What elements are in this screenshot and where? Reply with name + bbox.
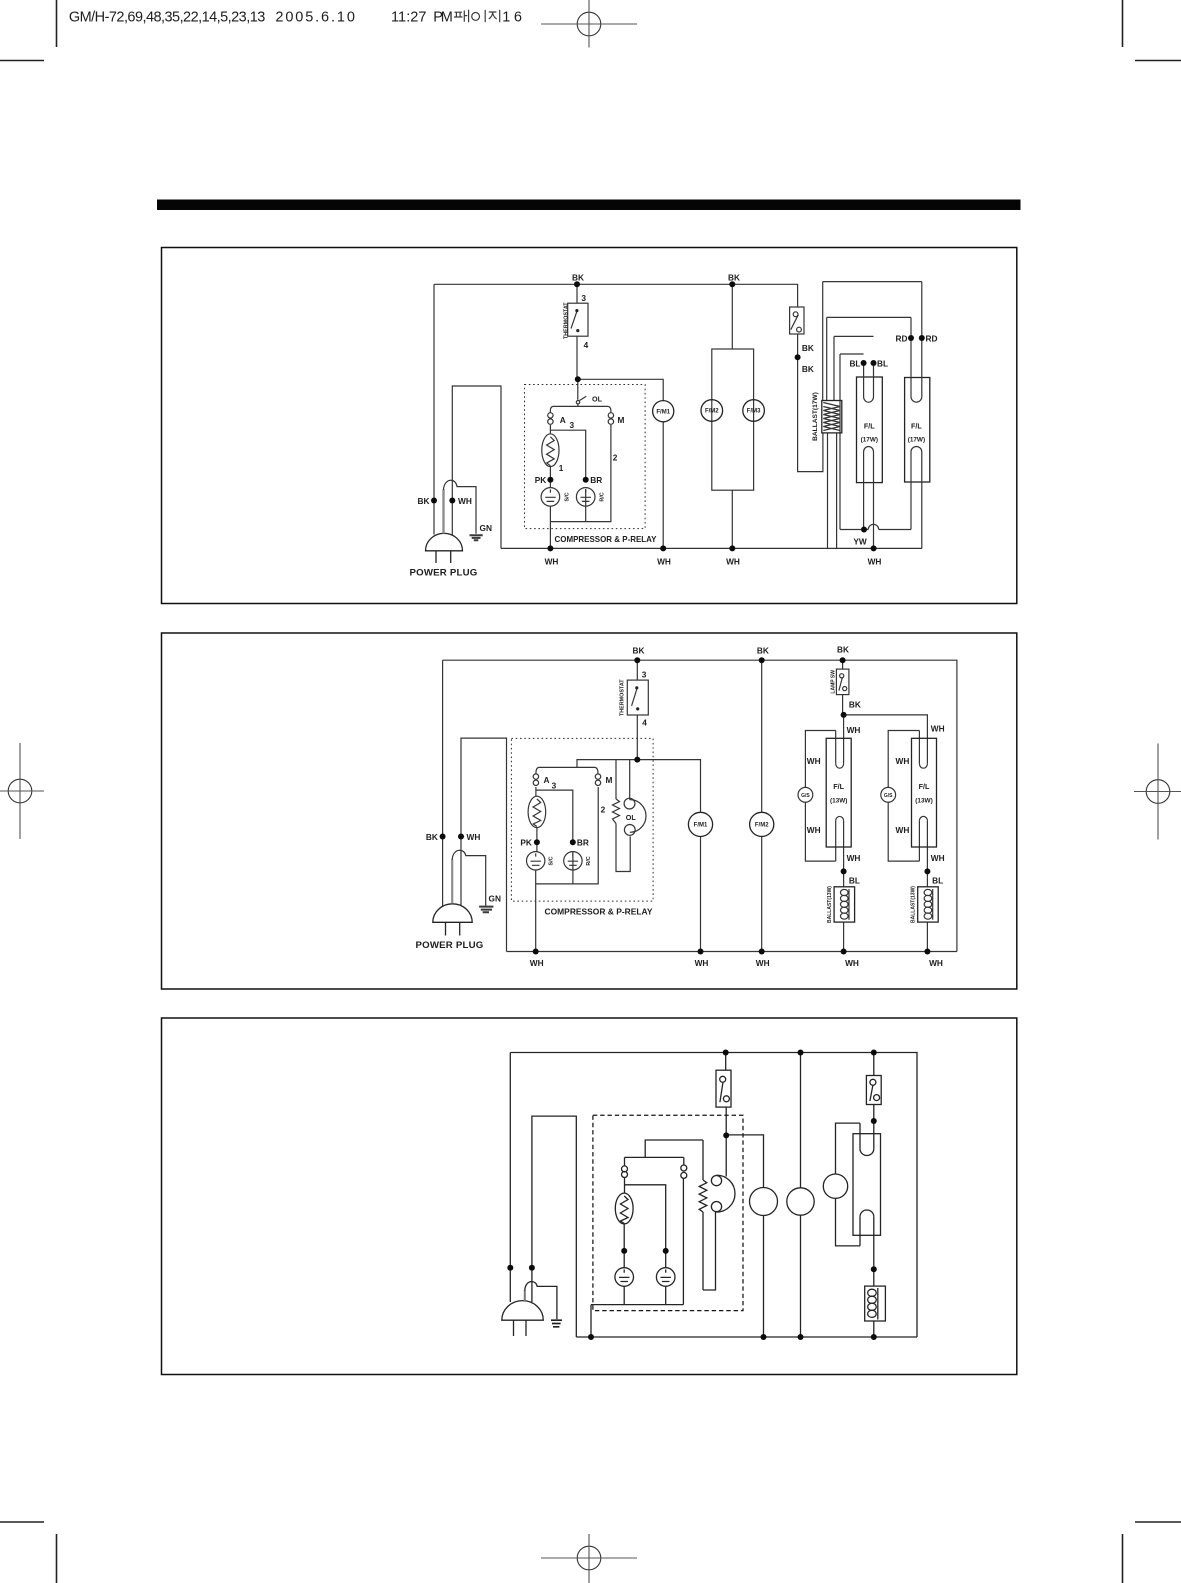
svg-text:F/M1: F/M1 — [694, 823, 708, 829]
svg-text:BK: BK — [837, 645, 849, 655]
svg-text:3: 3 — [581, 293, 586, 303]
svg-text:OL: OL — [626, 813, 637, 822]
svg-text:BL: BL — [877, 359, 888, 369]
svg-text:3: 3 — [552, 781, 557, 791]
svg-text:BL: BL — [849, 359, 860, 369]
svg-text:BK: BK — [728, 273, 740, 283]
svg-text:(17W): (17W) — [908, 437, 925, 444]
svg-text:2005.6.10: 2005.6.10 — [275, 9, 355, 25]
svg-text:A: A — [560, 415, 566, 425]
svg-text:M: M — [618, 415, 625, 425]
svg-text:BL: BL — [849, 876, 860, 886]
svg-text:BK: BK — [757, 646, 769, 656]
svg-text:PK: PK — [520, 837, 532, 847]
svg-text:BALLAST(13W): BALLAST(13W) — [911, 886, 917, 923]
svg-text:R/C: R/C — [586, 856, 592, 865]
svg-text:RD: RD — [926, 334, 938, 344]
svg-text:F/L: F/L — [864, 422, 875, 431]
svg-text:WH: WH — [929, 958, 943, 968]
svg-text:WH: WH — [845, 958, 859, 968]
svg-text:WH: WH — [458, 496, 472, 506]
svg-text:WH: WH — [807, 756, 821, 766]
svg-text:WH: WH — [545, 557, 559, 567]
svg-text:WH: WH — [756, 958, 770, 968]
svg-text:2: 2 — [613, 453, 618, 463]
svg-text:BR: BR — [590, 475, 602, 485]
svg-text:WH: WH — [657, 557, 671, 567]
svg-text:GM/H-72,69,48,35,22,14,5,23,13: GM/H-72,69,48,35,22,14,5,23,13 — [69, 9, 265, 25]
svg-text:COMPRESSOR & P-RELAY: COMPRESSOR & P-RELAY — [555, 534, 657, 544]
svg-text:COMPRESSOR & P-RELAY: COMPRESSOR & P-RELAY — [545, 907, 653, 917]
svg-text:BK: BK — [426, 832, 438, 842]
svg-text:BALLAST(13W): BALLAST(13W) — [827, 886, 833, 923]
svg-text:YW: YW — [853, 537, 867, 547]
svg-text:BK: BK — [802, 364, 814, 374]
svg-text:WH: WH — [931, 853, 945, 863]
svg-text:F/M1: F/M1 — [656, 409, 670, 415]
svg-text:BK: BK — [802, 343, 814, 353]
svg-text:3: 3 — [569, 420, 574, 430]
svg-text:POWER PLUG: POWER PLUG — [410, 567, 478, 578]
svg-text:2: 2 — [601, 805, 606, 815]
svg-text:RD: RD — [896, 334, 908, 344]
svg-text:THERMOSTAT: THERMOSTAT — [564, 302, 570, 339]
svg-text:G/S: G/S — [801, 793, 810, 799]
svg-text:WH: WH — [695, 958, 709, 968]
svg-text:PM: PM — [433, 9, 453, 25]
svg-text:F/M2: F/M2 — [755, 823, 769, 829]
svg-text:WH: WH — [530, 958, 544, 968]
svg-text:BK: BK — [572, 273, 584, 283]
svg-text:POWER PLUG: POWER PLUG — [416, 939, 484, 950]
svg-text:F/M2: F/M2 — [705, 409, 719, 415]
svg-text:WH: WH — [467, 832, 481, 842]
svg-text:A: A — [544, 775, 550, 785]
svg-text:F/L: F/L — [919, 782, 930, 791]
svg-text:BR: BR — [577, 837, 589, 847]
svg-text:4: 4 — [642, 718, 647, 728]
svg-text:GN: GN — [480, 523, 492, 533]
svg-text:F/L: F/L — [833, 782, 844, 791]
svg-text:WH: WH — [896, 825, 910, 835]
svg-text:(13W): (13W) — [830, 798, 847, 805]
svg-text:S/C: S/C — [564, 492, 570, 501]
svg-text:WH: WH — [896, 756, 910, 766]
svg-text:1: 1 — [559, 463, 564, 473]
svg-text:R/C: R/C — [600, 492, 606, 501]
svg-text:BL: BL — [932, 876, 943, 886]
svg-text:WH: WH — [726, 557, 740, 567]
svg-text:BK: BK — [418, 496, 430, 506]
svg-text:OL: OL — [592, 395, 603, 404]
svg-text:F/L: F/L — [911, 422, 922, 431]
svg-text:GN: GN — [489, 894, 501, 904]
svg-text:BK: BK — [633, 646, 645, 656]
svg-text:11:27: 11:27 — [391, 9, 427, 25]
svg-text:(17W): (17W) — [861, 437, 878, 444]
svg-text:G/S: G/S — [884, 793, 893, 799]
svg-text:WH: WH — [847, 853, 861, 863]
svg-text:THERMOSTAT: THERMOSTAT — [619, 679, 625, 716]
svg-text:(13W): (13W) — [915, 798, 932, 805]
svg-text:WH: WH — [868, 557, 882, 567]
svg-text:BK: BK — [849, 700, 861, 710]
svg-text:16: 16 — [502, 9, 522, 25]
svg-text:3: 3 — [642, 670, 647, 680]
svg-text:F/M3: F/M3 — [747, 409, 761, 415]
svg-text:WH: WH — [807, 825, 821, 835]
svg-text:WH: WH — [931, 724, 945, 734]
svg-text:PK: PK — [535, 475, 547, 485]
svg-text:4: 4 — [584, 340, 589, 350]
svg-text:S/C: S/C — [549, 856, 555, 865]
svg-text:BALLAST(17W): BALLAST(17W) — [812, 392, 819, 441]
svg-text:WH: WH — [847, 725, 861, 735]
svg-text:M: M — [606, 775, 613, 785]
svg-text:LAMP SW: LAMP SW — [830, 670, 836, 694]
